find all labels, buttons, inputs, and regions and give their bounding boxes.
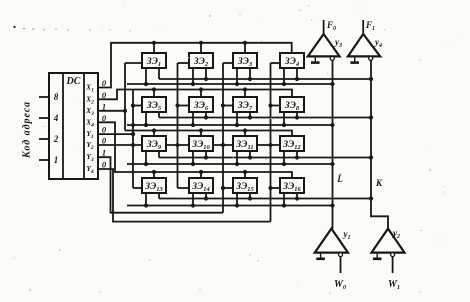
svg-text:Код адреса: Код адреса: [22, 102, 33, 159]
svg-text:2: 2: [53, 134, 59, 144]
svg-text:DC: DC: [66, 76, 81, 87]
svg-text:К: К: [375, 178, 383, 188]
svg-text:Ĺ: Ĺ: [336, 174, 343, 184]
svg-text:1: 1: [54, 155, 59, 165]
svg-text:8: 8: [54, 92, 59, 102]
svg-text:1: 1: [102, 101, 106, 111]
svg-text:1: 1: [102, 148, 106, 158]
svg-text:4: 4: [53, 113, 59, 123]
